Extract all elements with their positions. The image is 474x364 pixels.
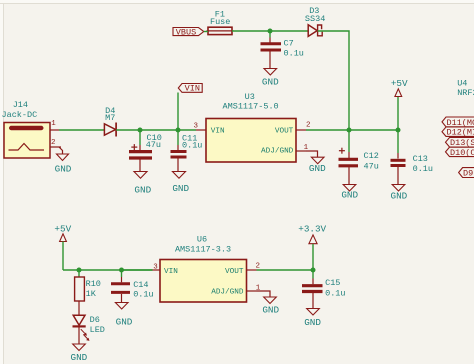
regulator U6 AMS1117-3.3 (160, 235, 247, 303)
junction at C10 (138, 128, 143, 133)
ground at J14 pin 2 (55, 147, 72, 174)
junction at C14 (119, 268, 124, 273)
wire VBUS to fuse (204, 31, 208, 33)
svg-text:D9(CE): D9(CE) (463, 169, 474, 179)
svg-text:ADJ/GND: ADJ/GND (261, 147, 294, 155)
svg-text:VIN: VIN (164, 268, 178, 276)
svg-text:VOUT: VOUT (275, 128, 294, 136)
wire U3 VOUT to +5V (306, 129, 398, 131)
U6 pin 1 (247, 285, 261, 293)
wire D3 to corner and down to +5V rail (318, 31, 349, 130)
ground at U3 ADJ (309, 157, 326, 174)
ground below D6 (71, 344, 88, 363)
svg-text:2: 2 (51, 139, 56, 147)
svg-text:C15: C15 (325, 278, 340, 288)
svg-text:1: 1 (51, 120, 56, 128)
junction at C15 (311, 268, 316, 273)
svg-text:C7: C7 (284, 39, 294, 49)
LED D6 (73, 315, 105, 341)
U6 pin 2 (247, 263, 260, 271)
svg-text:U3: U3 (245, 92, 255, 102)
svg-text:AMS1117-5.0: AMS1117-5.0 (223, 102, 279, 112)
svg-text:1K: 1K (86, 289, 97, 299)
junction at C13 / +5V (396, 128, 401, 133)
ground at U6 ADJ (262, 297, 279, 316)
svg-text:GND: GND (341, 190, 358, 201)
global label D13(SCK) (446, 138, 474, 149)
svg-text:GND: GND (309, 163, 326, 174)
ground below C13 (391, 185, 408, 202)
global label D12(MISO) (442, 127, 474, 138)
svg-text:SS34: SS34 (305, 14, 325, 24)
svg-text:Jack-DC: Jack-DC (2, 110, 38, 120)
ground below C10 (134, 172, 152, 196)
global label D10(CSN) (446, 147, 474, 158)
capacitor C7 (261, 31, 304, 69)
wire U6 pin1 to ground (257, 291, 271, 297)
svg-text:R10: R10 (86, 279, 101, 289)
wire VIN label down to rail (177, 93, 179, 131)
U3 pin 2 (296, 121, 311, 130)
U3 pin 1 (296, 144, 309, 152)
svg-text:GND: GND (116, 317, 133, 328)
IC U4 NRF24L01 (partial) (457, 79, 474, 99)
wire U3 pin1 to ground (306, 151, 318, 157)
svg-text:C13: C13 (413, 154, 428, 164)
svg-text:0.1u: 0.1u (182, 140, 202, 150)
svg-text:GND: GND (391, 191, 408, 202)
svg-text:D6: D6 (90, 315, 100, 325)
ground below C12 (341, 185, 358, 201)
svg-text:VOUT: VOUT (225, 268, 244, 276)
svg-text:J14: J14 (13, 100, 28, 110)
svg-text:U4: U4 (457, 79, 467, 89)
svg-text:ADJ/GND: ADJ/GND (211, 289, 244, 297)
svg-text:3: 3 (194, 123, 199, 131)
svg-text:U6: U6 (197, 235, 207, 245)
svg-text:D11(MOSI): D11(MOSI) (447, 118, 474, 128)
svg-text:VIN: VIN (211, 128, 225, 136)
svg-text:3: 3 (153, 264, 158, 272)
wire C14 to U6 pin 3 (122, 269, 153, 271)
power +5V (bottom) (54, 224, 71, 271)
global label VIN (178, 84, 202, 94)
global label VBUS (173, 27, 204, 37)
regulator U3 AMS1117-5.0 (206, 92, 296, 162)
global label D9(CE) (459, 168, 474, 179)
svg-text:GND: GND (55, 163, 72, 174)
capacitor C15 (302, 270, 346, 309)
power +5V (391, 78, 408, 130)
svg-text:0.1u: 0.1u (413, 164, 433, 174)
U3 pin 3 (194, 123, 206, 131)
global label D11(MOSI) (442, 117, 474, 128)
svg-text:0.1u: 0.1u (133, 289, 153, 299)
svg-text:47u: 47u (364, 162, 379, 172)
diode D3 SS34 (305, 6, 325, 36)
capacitor C13 (391, 130, 434, 185)
capacitor C12 (polarized) (339, 130, 379, 185)
wire J14 to D4 (59, 129, 104, 131)
svg-text:GND: GND (134, 184, 151, 195)
connector J14 Jack-DC (2, 100, 62, 158)
wire D4 to U3 pin 3 (116, 129, 196, 131)
svg-text:+3.3V: +3.3V (298, 224, 326, 235)
svg-text:GND: GND (71, 352, 88, 363)
wire U6 VOUT to +3.3V (257, 269, 314, 271)
resistor R10 (75, 270, 101, 301)
capacitor C14 (111, 270, 154, 303)
junction at C7 (268, 29, 273, 34)
svg-text:GND: GND (304, 317, 321, 328)
svg-text:0.1u: 0.1u (325, 288, 345, 298)
svg-text:LED: LED (90, 325, 105, 335)
svg-text:2: 2 (306, 121, 311, 129)
ground below C11 (172, 172, 189, 195)
U6 pin 3 (153, 264, 161, 272)
svg-text:AMS1117-3.3: AMS1117-3.3 (175, 245, 231, 255)
svg-text:GND: GND (262, 77, 279, 88)
fuse F1 (207, 9, 234, 34)
junction at R10 (77, 268, 82, 273)
wire D6 to ground (78, 327, 80, 344)
svg-text:GND: GND (172, 183, 189, 194)
svg-text:M7: M7 (105, 113, 115, 123)
svg-text:NRF24L01: NRF24L01 (457, 88, 474, 98)
svg-text:GND: GND (262, 305, 279, 316)
junction at C12 (347, 128, 352, 133)
svg-text:+5V: +5V (391, 78, 408, 89)
capacitor C10 (polarized) (129, 130, 162, 172)
wire R10 to D6 (78, 301, 80, 315)
power +3.3V (298, 224, 326, 271)
wire +5V rail bottom (63, 269, 153, 271)
svg-text:C12: C12 (364, 151, 379, 161)
svg-text:VIN: VIN (185, 84, 200, 94)
wire fuse to D3 (232, 30, 309, 32)
diode D4 M7 (104, 106, 116, 136)
capacitor C11 (171, 130, 203, 172)
ground below C15 (304, 309, 321, 328)
svg-text:D10(CSN): D10(CSN) (450, 148, 474, 158)
junction at C11 / VIN (176, 128, 181, 133)
svg-text:Fuse: Fuse (210, 17, 230, 27)
svg-text:47u: 47u (146, 140, 161, 150)
svg-text:D12(MISO): D12(MISO) (447, 128, 474, 138)
svg-text:VBUS: VBUS (176, 27, 196, 37)
svg-text:0.1u: 0.1u (284, 49, 304, 59)
ground below C14 (115, 303, 132, 328)
ground below C7 (262, 69, 279, 88)
